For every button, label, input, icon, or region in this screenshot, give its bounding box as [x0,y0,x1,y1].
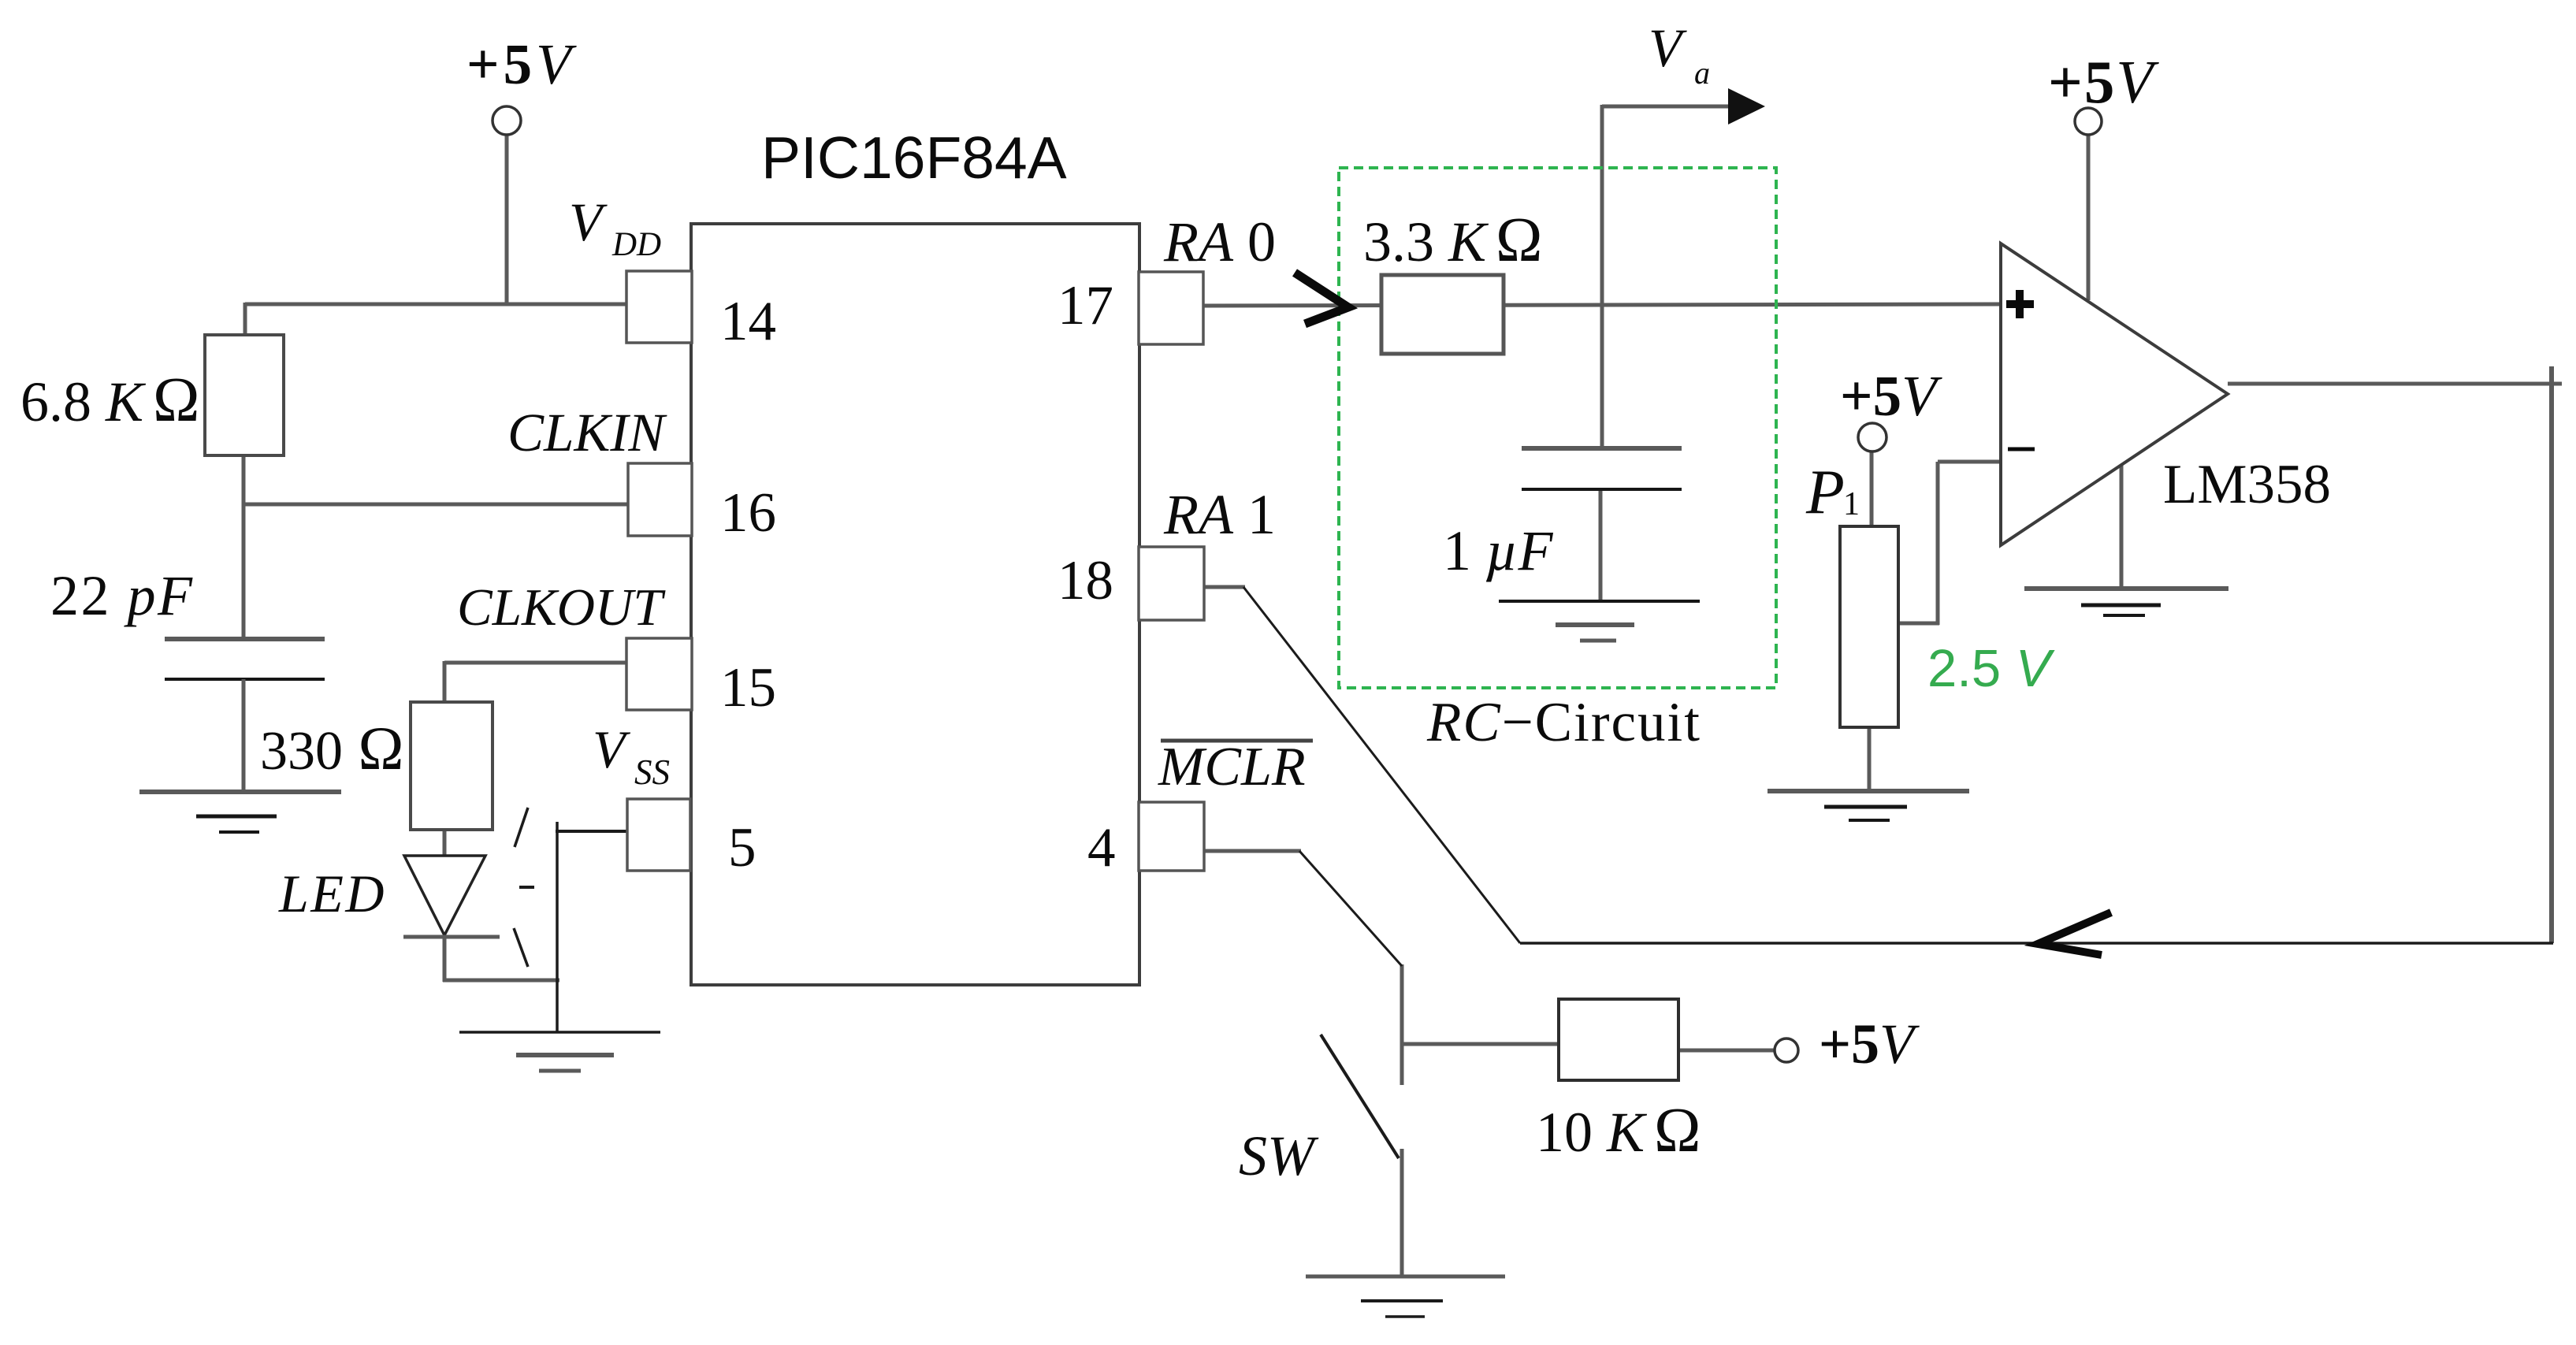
svg-text:+5V: +5V [1819,1012,1920,1076]
svg-text:1: 1 [1843,486,1860,522]
svg-text:LM358: LM358 [2163,454,2331,515]
svg-text:DD: DD [611,226,661,263]
svg-text:V: V [569,192,608,252]
svg-text:17: 17 [1058,275,1113,336]
svg-text:10 KΩ: 10 KΩ [1536,1096,1701,1165]
svg-text:MCLR: MCLR [1158,737,1306,797]
svg-text:RA 0: RA 0 [1163,210,1276,273]
svg-text:2.5 V: 2.5 V [1927,639,2055,698]
svg-text:15: 15 [720,657,776,719]
svg-text:18: 18 [1058,550,1113,611]
svg-text:PIC16F84A: PIC16F84A [761,124,1067,191]
svg-text:14: 14 [720,291,776,352]
svg-text:SS: SS [634,752,670,792]
svg-text:V: V [1649,18,1687,78]
svg-text:3.3 KΩ: 3.3 KΩ [1363,206,1542,275]
svg-text:RC−Circuit: RC−Circuit [1426,692,1701,753]
svg-text:CLKOUT: CLKOUT [457,578,666,637]
svg-text:5: 5 [728,817,756,879]
svg-text:a: a [1694,55,1710,91]
svg-text:+5V: +5V [467,32,577,96]
svg-text:CLKIN: CLKIN [507,403,667,463]
svg-text:+5V: +5V [2048,48,2159,116]
svg-text:RA 1: RA 1 [1163,483,1276,546]
svg-text:16: 16 [720,482,776,544]
svg-text:22 pF: 22 pF [50,564,194,627]
svg-text:LED: LED [278,864,386,923]
svg-text:330 Ω: 330 Ω [260,714,403,782]
svg-text:1 µF: 1 µF [1443,519,1553,582]
svg-text:SW: SW [1239,1124,1319,1187]
svg-text:+5V: +5V [1840,364,1942,428]
svg-text:P: P [1805,458,1845,527]
svg-text:6.8 KΩ: 6.8 KΩ [20,366,199,435]
svg-text:4: 4 [1087,817,1116,879]
